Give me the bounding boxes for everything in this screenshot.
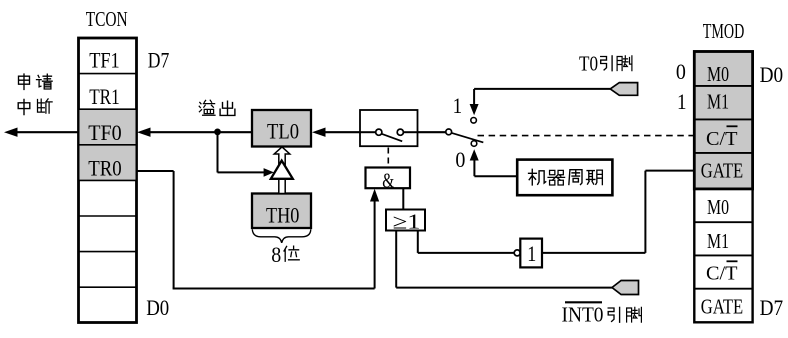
wire interrupt request (arrow to far left) [4,128,79,137]
wire inverter to or gate [418,231,515,253]
wire load TH0 (from junction) [218,132,274,177]
svg-text:M1: M1 [707,229,729,253]
bit C/T (gray) [706,126,738,150]
svg-text:M1: M1 [707,89,729,113]
svg-text:D7: D7 [760,295,784,320]
label T0引脚 [579,51,632,75]
svg-text:TF0: TF0 [88,120,122,145]
bus arrow TH0 to TL0 [274,147,290,194]
register TH0 [252,194,311,229]
svg-text:TR0: TR0 [88,155,122,180]
svg-text:1: 1 [527,241,536,266]
wire TR0 to and gate (with arrow) [137,171,380,289]
svg-text:D0: D0 [760,62,784,87]
svg-text:INT0: INT0 [562,302,604,326]
or gate >=1 [386,210,425,234]
svg-text:1: 1 [453,93,463,118]
inverter gate 1 [514,239,542,268]
pin pad INT0 [612,281,639,295]
svg-text:GATE: GATE [701,158,744,182]
label 8位 [271,242,299,267]
svg-text:GATE: GATE [701,295,744,319]
wire T0 pin [474,88,610,90]
svg-text:TMOD: TMOD [703,19,745,43]
svg-text:M0: M0 [707,62,729,86]
register TL0 [252,110,311,147]
svg-text:0: 0 [455,147,465,172]
switch S2 contact 0 [470,141,518,177]
dashed wire C/T to switch S2 [478,135,695,137]
wire INT0 to or gate [396,231,612,288]
wire GATE to inverter [542,171,694,253]
svg-text:0: 0 [676,59,686,84]
svg-text:D7: D7 [148,47,170,72]
svg-text:≥1: ≥1 [393,210,421,234]
register TCON column [79,38,137,323]
bit C/T [706,261,738,284]
switch S2 contact 1 [470,89,479,123]
label 申请中断 [18,74,52,115]
brace 8-bit [252,229,310,243]
wire overflow TL0 to TF0 [137,128,252,137]
svg-text:TR1: TR1 [89,84,120,109]
svg-text:C/T: C/T [706,128,738,150]
wire and gate to or gate [402,188,404,209]
svg-text:TF1: TF1 [89,47,120,72]
svg-text:M0: M0 [707,195,729,219]
switch box S1 [360,110,418,146]
junction dot [214,129,221,136]
svg-text:C/T: C/T [706,263,738,285]
pin pad T0 [610,83,637,96]
box machine cycle 机器周期 [517,160,612,196]
svg-text:1: 1 [677,89,687,114]
wire switch to TL0 [312,128,360,137]
and gate & [366,168,411,193]
svg-text:&: & [382,168,394,192]
label INT0引脚 with overline [562,302,642,326]
svg-text:D0: D0 [146,295,169,320]
switch S2 pole [418,129,484,142]
register TMOD column [694,52,752,323]
svg-text:8: 8 [271,242,281,267]
dashed control wire to and gate [387,148,389,168]
svg-text:TH0: TH0 [266,203,299,228]
svg-text:TCON: TCON [86,7,128,31]
svg-text:T0: T0 [579,51,598,75]
label 溢出 [199,100,235,115]
svg-text:TL0: TL0 [267,118,299,143]
buffer triangle [271,161,293,179]
